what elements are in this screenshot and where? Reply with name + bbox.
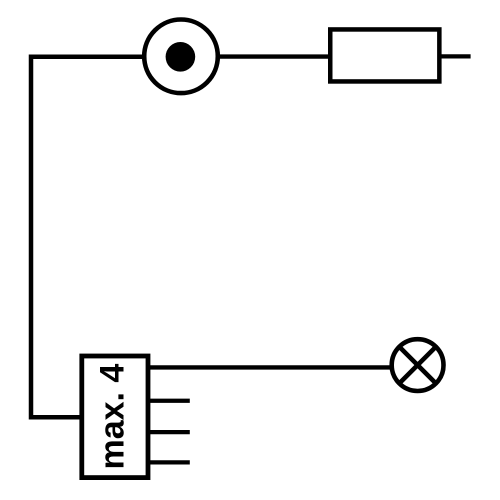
wire circle to resistor — [217, 54, 330, 58]
wire left loop (top horizontal, left vertical, bottom horizontal) — [31, 57, 144, 417]
control unit box — [82, 356, 148, 478]
stub wire 2 — [150, 399, 190, 403]
resistor R1 — [330, 29, 439, 81]
stub wire 4 — [150, 460, 190, 464]
svg-text:max. 4: max. 4 — [94, 364, 132, 470]
indicator device B1 inner dot — [166, 42, 196, 72]
stub wire 3 — [150, 430, 190, 434]
lamp E1 circle — [392, 339, 444, 391]
wire box to lamp — [150, 365, 391, 369]
lamp E1 cross line 1 — [399, 347, 436, 384]
wire resistor to right — [440, 54, 471, 58]
indicator device B1 outer circle — [144, 20, 218, 94]
lamp E1 cross line 2 — [399, 347, 436, 384]
